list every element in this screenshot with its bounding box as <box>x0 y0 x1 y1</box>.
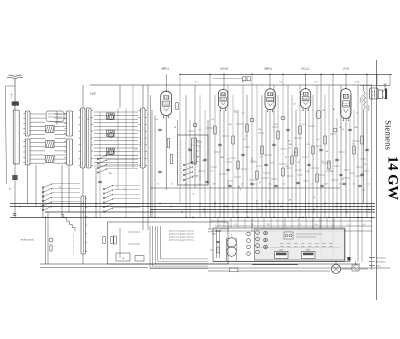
svg-text:5k: 5k <box>171 184 173 186</box>
svg-text:0,3: 0,3 <box>198 147 201 149</box>
svg-text:0,5: 0,5 <box>199 184 202 186</box>
svg-text:gemessen gegen Chassis: gemessen gegen Chassis <box>169 231 195 233</box>
svg-text:1M: 1M <box>325 184 328 186</box>
svg-text:4: 4 <box>348 224 349 226</box>
svg-text:0,3: 0,3 <box>234 112 237 114</box>
svg-text:Tr: Tr <box>231 235 233 237</box>
svg-text:gemessen gegen Chassis: gemessen gegen Chassis <box>169 234 195 236</box>
svg-text:0,5: 0,5 <box>311 184 314 186</box>
svg-text:Anodenkr.: Anodenkr. <box>377 261 387 264</box>
svg-text:2k: 2k <box>353 184 355 186</box>
svg-text:0,5: 0,5 <box>341 179 344 181</box>
svg-text:gemessen gegen Chassis: gemessen gegen Chassis <box>169 237 195 239</box>
svg-text:50: 50 <box>313 197 315 199</box>
svg-text:50: 50 <box>306 144 308 146</box>
svg-text:Netz: Netz <box>377 265 381 268</box>
svg-text:25: 25 <box>354 150 356 152</box>
svg-text:1M: 1M <box>288 141 291 143</box>
svg-text:0,5W: 0,5W <box>355 82 360 84</box>
svg-text:0,2: 0,2 <box>255 184 258 186</box>
svg-text:25: 25 <box>288 147 290 149</box>
svg-text:2M: 2M <box>229 124 232 126</box>
svg-text:JFD80/JTD4k: JFD80/JTD4k <box>20 240 34 242</box>
svg-text:0,1: 0,1 <box>227 158 230 160</box>
svg-text:1M: 1M <box>322 110 325 112</box>
svg-text:25: 25 <box>297 184 299 186</box>
svg-text:10k: 10k <box>315 224 318 226</box>
svg-text:Feldsp.: Feldsp. <box>360 97 362 103</box>
svg-text:5k: 5k <box>259 182 261 184</box>
svg-text:gegen Chassis: gegen Chassis <box>208 231 221 233</box>
svg-text:UBF11: UBF11 <box>161 67 170 71</box>
svg-text:50: 50 <box>197 157 199 159</box>
svg-text:1M: 1M <box>289 144 292 146</box>
svg-text:0,1: 0,1 <box>157 184 160 186</box>
svg-text:5k: 5k <box>240 189 242 191</box>
svg-text:5k: 5k <box>250 160 252 162</box>
svg-text:1M: 1M <box>289 200 292 202</box>
svg-text:1: 1 <box>332 224 333 226</box>
svg-text:25: 25 <box>191 145 193 147</box>
svg-text:10: 10 <box>199 130 201 132</box>
svg-text:1M: 1M <box>238 186 241 188</box>
svg-text:gemessen gegen Chassis: gemessen gegen Chassis <box>169 240 195 242</box>
svg-text:50: 50 <box>227 184 229 186</box>
svg-text:50: 50 <box>322 161 324 163</box>
svg-text:0,1: 0,1 <box>363 224 366 226</box>
svg-text:0,1: 0,1 <box>242 112 245 114</box>
svg-text:10: 10 <box>286 166 288 168</box>
svg-text:25: 25 <box>185 184 187 186</box>
svg-text:0,1: 0,1 <box>235 224 238 226</box>
svg-text:5k: 5k <box>283 184 285 186</box>
svg-text:70: 70 <box>195 176 197 178</box>
svg-text:Spannungen gemessen: Spannungen gemessen <box>208 229 229 231</box>
svg-text:0,2: 0,2 <box>367 184 370 186</box>
svg-text:14 GW: 14 GW <box>385 156 400 200</box>
svg-text:0,3: 0,3 <box>293 103 296 105</box>
svg-text:Siemens: Siemens <box>384 120 394 150</box>
svg-text:70: 70 <box>259 157 261 159</box>
svg-text:2k: 2k <box>241 184 243 186</box>
svg-text:10: 10 <box>245 135 247 137</box>
svg-text:0,5µF: 0,5µF <box>90 94 97 96</box>
svg-text:0,5: 0,5 <box>362 190 365 192</box>
svg-text:2M: 2M <box>339 127 342 129</box>
svg-text:1M: 1M <box>294 152 297 154</box>
svg-text:UCL11: UCL11 <box>301 67 310 71</box>
svg-text:0,1: 0,1 <box>297 162 300 164</box>
svg-text:0,1: 0,1 <box>211 171 214 173</box>
svg-text:UCH11: UCH11 <box>220 67 229 71</box>
svg-text:UY11: UY11 <box>343 67 350 71</box>
svg-text:50: 50 <box>268 201 270 203</box>
svg-text:0,5: 0,5 <box>271 163 274 165</box>
svg-text:4: 4 <box>220 224 221 226</box>
svg-text:10: 10 <box>256 200 258 202</box>
svg-text:6: 6 <box>284 224 285 226</box>
svg-text:0,1µF: 0,1µF <box>11 93 13 99</box>
svg-text:50: 50 <box>339 184 341 186</box>
svg-text:UBF11: UBF11 <box>264 67 273 71</box>
svg-text:Gitterkreis: Gitterkreis <box>377 257 386 260</box>
svg-text:0,5: 0,5 <box>192 194 195 196</box>
svg-text:5k: 5k <box>356 112 358 114</box>
svg-text:2M: 2M <box>361 174 364 176</box>
svg-text:5k: 5k <box>188 148 190 150</box>
svg-text:1M: 1M <box>333 109 336 111</box>
svg-text:1M: 1M <box>202 161 205 163</box>
svg-text:25: 25 <box>352 143 354 145</box>
svg-text:1M: 1M <box>213 184 216 186</box>
